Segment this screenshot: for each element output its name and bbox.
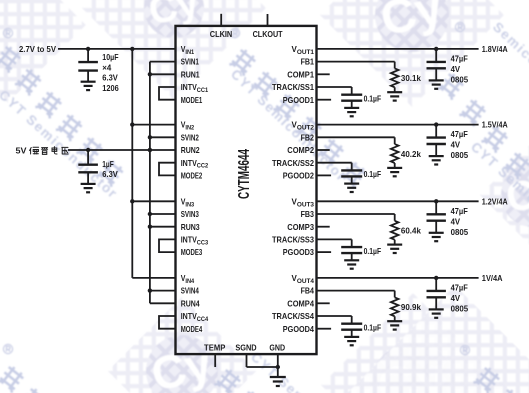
svg-text:INTVCC2: INTVCC2: [181, 158, 209, 170]
svg-text:90.9k: 90.9k: [401, 302, 421, 312]
value label C2: [102, 159, 118, 179]
svg-text:MODE4: MODE4: [181, 324, 203, 334]
svg-text:PGOOD2: PGOOD2: [283, 171, 315, 181]
value label 0.1uF 4: [364, 323, 382, 333]
svg-text:TRACK/SS2: TRACK/SS2: [272, 158, 314, 168]
svg-text:5V: 5V: [16, 145, 27, 155]
svg-text:6.3V: 6.3V: [102, 73, 118, 83]
svg-text:RUN2: RUN2: [181, 145, 200, 155]
wire SVIN4: [150, 290, 176, 292]
ground for C2: [81, 184, 96, 192]
node VIN input 2.7V to 5V: [19, 44, 56, 54]
wire INTVCC3-MODE3 jumper: [159, 239, 176, 252]
svg-text:CYTM4644: CYTM4644: [236, 149, 253, 199]
ground for soft-start cap 3: [344, 260, 359, 268]
svg-text:RUN3: RUN3: [181, 222, 200, 232]
svg-text:4V: 4V: [451, 293, 461, 303]
ground for GND pin: [270, 377, 286, 386]
svg-text:SVIN2: SVIN2: [181, 132, 199, 142]
ground for R2: [387, 168, 402, 176]
value label 0.1uF 2: [364, 169, 382, 179]
svg-text:FB3: FB3: [301, 209, 315, 219]
value label R2: [401, 149, 421, 159]
ground for C1: [81, 82, 96, 90]
node output label 1.5V/4A: [482, 120, 508, 130]
capacitor soft-start 0.1uF C2s: [341, 170, 362, 183]
svg-text:VOUT4: VOUT4: [292, 273, 315, 285]
wire COMP1 stub: [317, 73, 330, 75]
resistor R2 40.2k: [391, 144, 399, 168]
svg-text:1.8V/4A: 1.8V/4A: [482, 44, 508, 54]
svg-text:GND: GND: [269, 342, 285, 352]
svg-text:0.1µF: 0.1µF: [364, 323, 382, 333]
svg-text:4V: 4V: [451, 64, 461, 74]
svg-text:CLKOUT: CLKOUT: [253, 29, 283, 39]
svg-text:47µF: 47µF: [451, 206, 468, 216]
capacitor output 47uF C2o: [427, 125, 446, 157]
capacitor soft-start 0.1uF C4s: [341, 324, 362, 337]
svg-text:30.1k: 30.1k: [401, 73, 421, 83]
ground for R3: [387, 245, 402, 253]
wire PGOOD4 stub: [317, 328, 332, 330]
resistor R4 90.9k: [391, 297, 399, 321]
wire PGOOD1 stub: [317, 99, 332, 101]
svg-text:FB4: FB4: [301, 286, 315, 296]
wire TRACK/SS2 to cap: [317, 163, 352, 171]
capacitor C2 1uF: [78, 150, 98, 184]
svg-text:47µF: 47µF: [451, 129, 468, 139]
node output label 1V/4A: [482, 273, 503, 283]
wire INTVCC1-MODE1 jumper: [159, 87, 176, 100]
svg-text:COMP2: COMP2: [287, 145, 314, 155]
wire RUN3: [150, 226, 176, 228]
ground for soft-start cap 1: [344, 108, 359, 116]
wire VIN4: [132, 277, 175, 279]
capacitor output 47uF C3o: [427, 201, 446, 233]
capacitor C1 10uF x4: [78, 49, 98, 82]
resistor R1 30.1k: [391, 68, 399, 92]
svg-text:40.2k: 40.2k: [401, 149, 421, 159]
value label 0.1uF 3: [364, 246, 382, 256]
wire FB3 to resistor: [317, 214, 395, 221]
svg-text:TRACK/SS3: TRACK/SS3: [272, 235, 314, 245]
svg-text:TRACK/SS4: TRACK/SS4: [272, 311, 314, 321]
svg-text:4V: 4V: [451, 140, 461, 150]
svg-text:0805: 0805: [451, 227, 469, 237]
wire VIN3: [132, 200, 175, 202]
svg-text:10µF: 10µF: [102, 52, 118, 62]
wire PGOOD2 stub: [317, 174, 332, 176]
svg-text:1.5V/4A: 1.5V/4A: [482, 120, 508, 130]
svg-text:COMP1: COMP1: [287, 69, 314, 79]
ground for R4: [387, 321, 402, 329]
svg-text:47µF: 47µF: [451, 54, 468, 64]
svg-text:SVIN4: SVIN4: [181, 286, 199, 296]
svg-text:FB1: FB1: [301, 57, 315, 67]
wire RUN4: [150, 302, 176, 304]
svg-text:VIN3: VIN3: [181, 196, 195, 208]
wire TEMP stub: [214, 354, 216, 367]
svg-text:VIN2: VIN2: [181, 120, 195, 132]
wire 5V bias rail to RUN2: [68, 148, 176, 152]
svg-text:6.3V: 6.3V: [102, 169, 118, 179]
wire PGOOD3 stub: [317, 251, 332, 253]
wire GND pin: [276, 354, 280, 377]
svg-text:VOUT1: VOUT1: [292, 44, 315, 56]
value label R1: [401, 73, 421, 83]
wire FB4 to resistor: [317, 291, 395, 298]
svg-text:SVIN3: SVIN3: [181, 209, 199, 219]
svg-text:VOUT3: VOUT3: [292, 196, 315, 208]
svg-text:0.1µF: 0.1µF: [364, 94, 382, 104]
wire VOUT2 rail: [317, 122, 479, 126]
value label C1: [102, 52, 119, 93]
wire TRACK/SS3 to cap: [317, 239, 352, 247]
ground for R1: [387, 92, 402, 100]
value label output cap 2: [451, 129, 469, 160]
wire INTVCC4-MODE4 jumper: [159, 316, 176, 329]
svg-text:VIN4: VIN4: [181, 273, 195, 285]
svg-text:SVIN1: SVIN1: [181, 57, 199, 67]
op-amp U1 CYTM4644 module body: [176, 26, 317, 354]
svg-text:INTVCC1: INTVCC1: [181, 82, 209, 94]
capacitor soft-start 0.1uF C1s: [341, 95, 362, 108]
svg-text:MODE1: MODE1: [181, 95, 203, 105]
resistor R3 60.4k: [391, 221, 399, 245]
wire COMP2 stub: [317, 149, 330, 151]
value label R3: [401, 226, 421, 236]
svg-text:CLKIN: CLKIN: [210, 29, 233, 39]
wire SVIN3: [150, 213, 176, 215]
svg-text:1.2V/4A: 1.2V/4A: [482, 196, 508, 206]
capacitor output 47uF C4o: [427, 278, 446, 310]
wire COMP3 stub: [317, 226, 330, 228]
svg-text:×4: ×4: [102, 62, 111, 72]
svg-text:47µF: 47µF: [451, 283, 468, 293]
svg-text:PGOOD4: PGOOD4: [283, 324, 315, 334]
wire CLKIN stub: [220, 14, 222, 26]
wire VOUT1 rail: [317, 47, 479, 51]
wire SVIN1: [150, 61, 176, 63]
wire FB2 to resistor: [317, 137, 395, 144]
wire VIN2: [132, 124, 175, 126]
svg-text:TRACK/SS1: TRACK/SS1: [272, 82, 314, 92]
node output label 1.8V/4A: [482, 44, 508, 54]
svg-text:4V: 4V: [451, 216, 461, 226]
ground for soft-start cap 4: [344, 337, 359, 345]
wire CLKOUT stub: [267, 14, 269, 26]
value label output cap 1: [451, 54, 469, 85]
wire COMP4 stub: [317, 302, 330, 304]
svg-text:0.1µF: 0.1µF: [364, 246, 382, 256]
ground for output cap 4: [429, 309, 444, 317]
svg-text:RUN4: RUN4: [181, 298, 200, 308]
wire VIN bus A: [130, 49, 134, 278]
svg-text:COMP3: COMP3: [287, 222, 314, 232]
wire INTVCC2-MODE2 jumper: [159, 163, 176, 176]
node 5V bias input label: [16, 145, 69, 155]
value label output cap 4: [451, 283, 469, 314]
svg-text:0805: 0805: [451, 75, 469, 85]
ground for output cap 2: [429, 156, 444, 164]
wire TRACK/SS4 to cap: [317, 316, 352, 324]
svg-text:RUN1: RUN1: [181, 69, 200, 79]
wire RUN1: [150, 73, 176, 75]
svg-text:60.4k: 60.4k: [401, 226, 421, 236]
capacitor output 47uF C1o: [427, 49, 446, 81]
svg-text:PGOOD1: PGOOD1: [283, 95, 315, 105]
wire VIN1 rail: [58, 47, 176, 51]
svg-text:1µF: 1µF: [102, 159, 113, 169]
value label 0.1uF 1: [364, 94, 382, 104]
svg-text:MODE3: MODE3: [181, 247, 203, 257]
wire SVIN2: [150, 136, 176, 138]
svg-text:MODE2: MODE2: [181, 171, 203, 181]
svg-text:TEMP: TEMP: [204, 342, 226, 352]
svg-text:FB2: FB2: [301, 132, 315, 142]
wire TRACK/SS1 to cap: [317, 87, 352, 95]
wire VOUT3 rail: [317, 199, 479, 203]
svg-text:SGND: SGND: [235, 342, 256, 352]
ground for output cap 3: [429, 233, 444, 241]
wire SGND to GND: [247, 354, 278, 367]
svg-text:0805: 0805: [451, 150, 469, 160]
svg-text:1206: 1206: [102, 83, 119, 93]
value label R4: [401, 302, 421, 312]
wire FB1 to resistor: [317, 62, 395, 69]
svg-text:INTVCC3: INTVCC3: [181, 235, 209, 247]
svg-text:0.1µF: 0.1µF: [364, 169, 382, 179]
svg-text:0805: 0805: [451, 304, 469, 314]
wire SVIN/RUN bus B: [148, 62, 152, 304]
svg-text:1V/4A: 1V/4A: [482, 273, 503, 283]
capacitor soft-start 0.1uF C3s: [341, 247, 362, 260]
node output label 1.2V/4A: [482, 196, 508, 206]
wire VOUT4 rail: [317, 276, 479, 280]
svg-text:PGOOD3: PGOOD3: [283, 247, 315, 257]
svg-text:2.7V to 5V: 2.7V to 5V: [19, 44, 56, 54]
svg-text:COMP4: COMP4: [287, 298, 314, 308]
value label output cap 3: [451, 206, 469, 237]
ground for soft-start cap 2: [344, 184, 359, 192]
ground for output cap 1: [429, 80, 444, 88]
